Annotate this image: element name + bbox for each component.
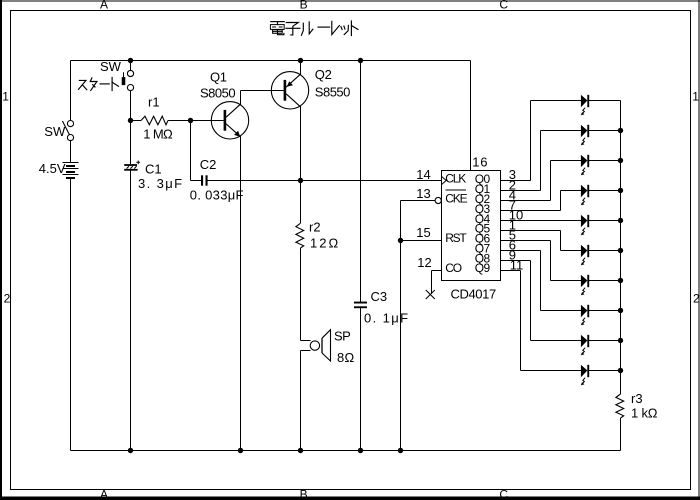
svg-text:2: 2 <box>4 291 11 305</box>
svg-text:Q2: Q2 <box>315 67 332 82</box>
svg-text:C: C <box>499 0 508 12</box>
svg-text:S8550: S8550 <box>315 84 350 99</box>
svg-text:14: 14 <box>416 167 430 182</box>
svg-text:2: 2 <box>693 291 700 305</box>
svg-text:A: A <box>100 487 108 500</box>
svg-text:Q9: Q9 <box>475 261 491 275</box>
svg-text:SP: SP <box>334 329 350 344</box>
svg-text:r3: r3 <box>631 391 643 406</box>
svg-text:S8050: S8050 <box>200 85 235 100</box>
svg-text:RST: RST <box>445 231 467 245</box>
svg-text:3. 3μF: 3. 3μF <box>138 176 184 191</box>
svg-text:CO: CO <box>445 261 461 275</box>
svg-text:C: C <box>499 487 508 500</box>
svg-text:C1: C1 <box>145 161 162 176</box>
svg-text:r2: r2 <box>309 220 321 235</box>
svg-text:C2: C2 <box>200 157 217 172</box>
svg-text:16: 16 <box>472 155 488 170</box>
svg-text:1: 1 <box>2 89 9 103</box>
svg-text:4.5V: 4.5V <box>39 161 66 176</box>
svg-text:SW: SW <box>100 59 122 74</box>
svg-text:A: A <box>100 0 108 12</box>
svg-text:15: 15 <box>416 225 430 240</box>
svg-text:0. 1μF: 0. 1μF <box>364 311 410 326</box>
svg-text:SW: SW <box>44 124 66 139</box>
svg-text:8Ω: 8Ω <box>337 350 355 365</box>
svg-text:Q1: Q1 <box>210 70 227 85</box>
svg-text:12Ω: 12Ω <box>310 236 340 251</box>
svg-text:B: B <box>300 0 308 12</box>
svg-text:1 kΩ: 1 kΩ <box>631 406 658 421</box>
svg-text:11: 11 <box>510 258 524 273</box>
svg-text:B: B <box>300 487 308 500</box>
svg-text:13: 13 <box>416 186 430 201</box>
svg-text:CD4017: CD4017 <box>451 286 496 301</box>
svg-text:1: 1 <box>692 89 699 103</box>
svg-text:CKE: CKE <box>445 191 467 205</box>
svg-text:r1: r1 <box>148 94 160 109</box>
svg-text:C3: C3 <box>371 289 388 304</box>
svg-text:CLK: CLK <box>445 172 466 186</box>
svg-text:1 MΩ: 1 MΩ <box>143 126 173 141</box>
svg-text:12: 12 <box>417 255 431 270</box>
svg-text:0. 033μF: 0. 033μF <box>190 188 244 203</box>
